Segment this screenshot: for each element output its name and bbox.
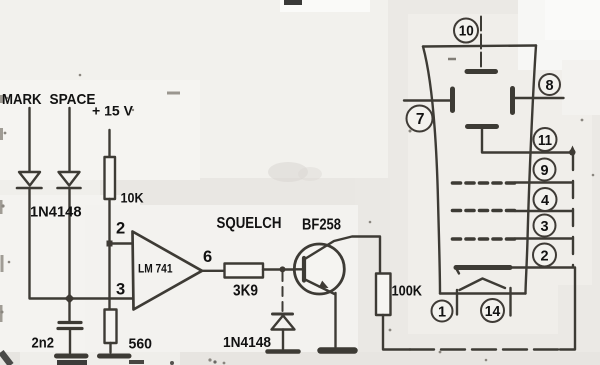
- svg-text:1N4148: 1N4148: [30, 204, 82, 221]
- svg-text:SPACE: SPACE: [50, 91, 96, 108]
- svg-text:+ 15 V: + 15 V: [92, 104, 133, 119]
- svg-text:7: 7: [416, 111, 425, 128]
- svg-text:LM 741: LM 741: [138, 264, 173, 276]
- svg-text:2: 2: [540, 248, 548, 264]
- svg-text:1N4148: 1N4148: [223, 334, 271, 351]
- svg-text:6: 6: [203, 248, 212, 266]
- svg-text:9: 9: [540, 163, 548, 179]
- svg-text:10: 10: [459, 23, 474, 40]
- svg-text:14: 14: [485, 304, 501, 320]
- svg-text:3: 3: [540, 219, 548, 235]
- svg-text:3K9: 3K9: [233, 283, 258, 300]
- svg-text:SQUELCH: SQUELCH: [217, 215, 282, 232]
- svg-text:100K: 100K: [392, 283, 423, 300]
- svg-text:4: 4: [541, 193, 549, 209]
- svg-text:10K: 10K: [121, 190, 144, 206]
- svg-text:2: 2: [116, 220, 125, 238]
- svg-text:560: 560: [129, 337, 153, 353]
- svg-text:11: 11: [538, 133, 552, 149]
- svg-text:BF258: BF258: [302, 217, 341, 234]
- svg-text:3: 3: [116, 281, 125, 299]
- svg-text:1: 1: [438, 304, 446, 320]
- svg-text:MARK: MARK: [2, 91, 42, 108]
- svg-text:2n2: 2n2: [32, 336, 55, 352]
- svg-text:8: 8: [545, 78, 553, 94]
